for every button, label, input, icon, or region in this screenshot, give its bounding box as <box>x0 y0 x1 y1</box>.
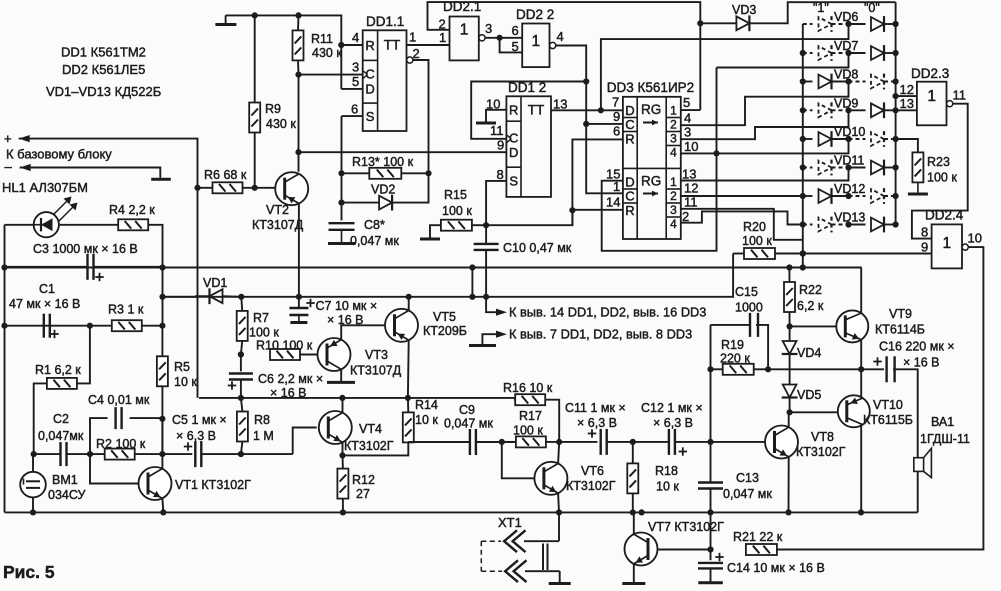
svg-text:VD9: VD9 <box>834 96 858 110</box>
svg-text:VT10: VT10 <box>873 398 903 412</box>
resistor R13* <box>369 168 401 179</box>
svg-text:КТ6115Б: КТ6115Б <box>863 413 913 427</box>
diode VD12 left (installed) <box>819 189 832 203</box>
svg-text:10: 10 <box>684 139 698 154</box>
wire C9 right <box>476 441 515 443</box>
svg-text:10 к: 10 к <box>174 375 197 389</box>
svg-text:С4 0,01 мк: С4 0,01 мк <box>88 393 150 407</box>
wire R14 top <box>407 398 409 413</box>
IC DD3 <box>623 97 681 239</box>
wire row VD11 mid right <box>849 167 866 169</box>
wire R18 top <box>632 442 634 464</box>
wire R8 bottom <box>241 442 243 455</box>
IC DD1.1 <box>363 30 407 131</box>
svg-text:С2: С2 <box>53 412 69 426</box>
wire row VD8 mid left <box>832 81 849 83</box>
wire C4 left <box>90 418 108 454</box>
svg-text:0,047 мк: 0,047 мк <box>723 487 772 501</box>
diode VD6 left (alt position) <box>819 17 832 31</box>
transistor VT2 <box>275 172 308 205</box>
svg-text:4: 4 <box>670 217 677 231</box>
wire C7 top <box>298 297 300 308</box>
svg-text:С12 1 мк ×: С12 1 мк × <box>641 401 703 415</box>
svg-text:DD2.4: DD2.4 <box>925 208 964 223</box>
wire DD2.3 pin12 <box>896 95 917 97</box>
svg-text:10: 10 <box>968 231 982 246</box>
wire rail A to rail B jumper <box>471 268 473 297</box>
wire row VD13 mid right <box>849 224 866 226</box>
svg-text:КТ3107Д: КТ3107Д <box>252 218 304 232</box>
wire DD2.3 pin13 (row VD9) <box>896 109 917 111</box>
svg-text:3: 3 <box>684 125 691 140</box>
wire C2 left node <box>34 453 61 455</box>
capacitor C14 <box>698 562 723 564</box>
wire R16 left <box>514 398 516 400</box>
svg-text:S: S <box>509 174 518 189</box>
wire R11 bottom to DD1.1 C <box>297 60 300 171</box>
wire +V rail A <box>5 267 862 269</box>
svg-text:8: 8 <box>921 225 928 240</box>
svg-text:С16 220 мк ×: С16 220 мк × <box>879 340 955 354</box>
svg-text:1: 1 <box>439 30 446 45</box>
svg-text:9: 9 <box>497 138 504 153</box>
wire DD3 pin5 out <box>681 109 701 111</box>
svg-text:× 16 В: × 16 В <box>270 386 307 400</box>
svg-text:430 к: 430 к <box>312 46 342 60</box>
svg-text:R7: R7 <box>253 311 269 325</box>
svg-text:C: C <box>625 189 634 204</box>
wire row VD7 right <box>884 52 896 54</box>
svg-text:0,047 мк: 0,047 мк <box>350 234 399 248</box>
wire to pins 7/8 <box>482 334 497 344</box>
svg-text:С8*: С8* <box>364 218 385 232</box>
wire VD5 bottom <box>789 398 791 413</box>
wire C3 left <box>5 266 88 268</box>
diode VD9 right (installed) <box>871 103 884 117</box>
svg-text:100 к: 100 к <box>927 171 957 185</box>
capacitor C13 <box>698 481 723 483</box>
svg-text:С5 1 мк ×: С5 1 мк × <box>172 413 227 427</box>
ground (C7) <box>298 315 300 323</box>
capacitor C8* <box>329 222 355 224</box>
wire VD2 right <box>392 173 428 202</box>
wire R5 top <box>161 326 163 357</box>
wire DD2.1 pin2 <box>434 29 450 31</box>
wire row VD7 input <box>717 53 849 68</box>
diode VD10 left (installed) <box>819 132 832 146</box>
svg-text:R13* 100 к: R13* 100 к <box>352 155 414 169</box>
capacitor C7 <box>289 307 308 309</box>
wire R22 top <box>788 268 790 283</box>
capacitor C1 <box>43 314 45 338</box>
wire R19 right <box>754 368 768 370</box>
svg-text:1: 1 <box>670 104 677 118</box>
diode VD4 <box>783 341 797 354</box>
svg-text:4: 4 <box>684 111 691 126</box>
wire VT8 base <box>711 441 766 443</box>
wire row VD6 left <box>803 23 813 25</box>
resistor R21 <box>746 544 777 555</box>
wire R8 top <box>241 398 243 412</box>
resistor R10 <box>270 349 300 360</box>
wire DD3 pin15 D path <box>602 68 717 251</box>
svg-text:С15: С15 <box>735 285 758 299</box>
svg-text:"1": "1" <box>813 1 829 15</box>
svg-text:100 к: 100 к <box>742 234 772 248</box>
wire VT8 collector to VT10 base <box>789 412 840 427</box>
svg-text:VD2: VD2 <box>371 183 395 197</box>
wire VT8 emitter <box>788 457 790 513</box>
svg-text:ХТ1: ХТ1 <box>498 515 522 530</box>
svg-text:R15: R15 <box>444 188 467 202</box>
svg-text:3: 3 <box>352 60 359 75</box>
resistor R3 <box>112 320 142 331</box>
wire VT6 base <box>502 442 535 478</box>
wire DD3 pin4 out (row VD8) <box>681 82 849 126</box>
svg-text:R8: R8 <box>254 413 270 427</box>
wire C5 to VT4 base <box>293 428 317 455</box>
clock tick DD1.1 C <box>363 71 368 75</box>
svg-text:VT9: VT9 <box>889 307 912 321</box>
capacitor C3 <box>86 254 88 280</box>
wire VT10 collector <box>860 425 862 513</box>
svg-text:1: 1 <box>613 179 620 194</box>
wire + line to base unit <box>19 139 198 398</box>
diode VD12 right (alt position) <box>871 189 884 203</box>
svg-text:6,2 к: 6,2 к <box>797 299 824 313</box>
capacitor C4 <box>114 407 116 429</box>
svg-text:R6 68 к: R6 68 к <box>204 168 247 182</box>
capacitor C16 <box>885 356 887 382</box>
resistor R8 <box>237 412 248 442</box>
svg-text:R19: R19 <box>721 338 744 352</box>
svg-text:430 к: 430 к <box>266 117 296 131</box>
wire C2 right node <box>67 453 105 455</box>
svg-text:С1: С1 <box>39 282 55 296</box>
svg-text:"0": "0" <box>864 1 880 15</box>
wire DD2.1 out to DD2.2 <box>485 37 522 39</box>
svg-text:10 к: 10 к <box>656 480 679 494</box>
svg-text:R18: R18 <box>655 464 678 478</box>
wire row VD12 mid right <box>849 195 866 197</box>
svg-text:5: 5 <box>512 39 519 54</box>
wire C5 right <box>201 453 292 455</box>
svg-text:11: 11 <box>953 88 967 103</box>
svg-text:R20: R20 <box>743 220 766 234</box>
svg-text:3: 3 <box>670 203 677 217</box>
svg-text:D: D <box>625 103 634 118</box>
svg-text:D: D <box>625 175 634 190</box>
ground (minus line) <box>159 176 161 179</box>
svg-text:VD1: VD1 <box>203 276 227 290</box>
transistor VT9 <box>836 310 868 342</box>
wire row VD12 left <box>803 195 813 197</box>
svg-text:3: 3 <box>485 21 492 36</box>
svg-text:1 М: 1 М <box>253 429 274 443</box>
IC DD1.2 <box>506 96 551 197</box>
transistor VT7 <box>625 533 658 566</box>
wire row VD10 right <box>884 138 896 140</box>
wire DD3 pin10 out (row VD10) <box>681 139 849 153</box>
wire C9 left <box>408 441 470 443</box>
svg-text:С11 1 мк ×: С11 1 мк × <box>565 401 626 415</box>
svg-text:VD3: VD3 <box>732 3 756 17</box>
wire row VD7 left <box>803 52 813 54</box>
wire VD4 to VD5 <box>789 354 791 385</box>
svg-text:D: D <box>509 145 518 160</box>
ground (pins 7/8 line) <box>481 343 483 346</box>
svg-text:9: 9 <box>921 240 928 255</box>
svg-text:VT2: VT2 <box>266 203 289 217</box>
wire R17 leads <box>502 441 516 443</box>
resistor R23 <box>912 152 923 182</box>
svg-text:5: 5 <box>683 95 690 110</box>
wire VD3 anode <box>700 22 736 24</box>
svg-text:4: 4 <box>352 30 359 45</box>
diode VD6 right (installed) <box>871 17 884 31</box>
wire row VD12 mid left <box>832 195 849 197</box>
svg-text:VT4: VT4 <box>359 422 382 436</box>
wire R9 bottom <box>254 133 256 188</box>
wire VD1 left <box>163 295 210 298</box>
wire BA1 bottom <box>917 471 919 512</box>
svg-text:S: S <box>366 109 375 124</box>
svg-text:VD1–VD13 КД522Б: VD1–VD13 КД522Б <box>46 84 161 99</box>
capacitor C2 <box>59 442 61 466</box>
svg-text:034СУ: 034СУ <box>48 488 85 502</box>
svg-text:VT7 КТ3102Г: VT7 КТ3102Г <box>648 520 724 534</box>
svg-text:R16 10 к: R16 10 к <box>503 381 553 395</box>
svg-text:КТ3102Г: КТ3102Г <box>566 479 616 493</box>
wire R23 top (row VD10) <box>896 139 918 152</box>
wire R12 top <box>342 455 344 468</box>
wire DD3 pin6 R <box>572 139 623 225</box>
clock tick DD1.2 C <box>506 135 511 139</box>
wire VT3 collector to VT5 base <box>341 325 387 339</box>
wire rail C <box>5 325 163 327</box>
svg-text:R: R <box>509 103 518 118</box>
svg-text:1: 1 <box>942 235 951 252</box>
svg-text:47 мк × 16 В: 47 мк × 16 В <box>9 297 80 311</box>
svg-text:6: 6 <box>613 124 620 139</box>
wire R19 left <box>711 368 723 370</box>
wire R19/C15 to VT9 collector line <box>768 368 884 370</box>
svg-text:С14 10 мк × 16 В: С14 10 мк × 16 В <box>727 561 825 575</box>
ground (VT3) <box>327 381 355 384</box>
wire DD3 pin3 out (row VD9) <box>681 110 849 139</box>
wire DD1.1 pin1 out <box>407 44 450 46</box>
svg-text:R14: R14 <box>415 398 438 412</box>
svg-text:8: 8 <box>497 167 504 182</box>
wire VT4 collector <box>342 398 344 413</box>
connector XT1 plug outline <box>480 541 482 571</box>
wire DD1.2 C path <box>471 82 586 139</box>
wire C6 bottom <box>240 380 242 398</box>
wire row VD9 mid right <box>849 109 866 111</box>
wire matrix 0-bus <box>895 2 897 225</box>
svg-text:ВМ1: ВМ1 <box>52 473 78 487</box>
svg-text:R5: R5 <box>174 360 190 374</box>
svg-text:9: 9 <box>613 109 620 124</box>
wire row VD6 mid left <box>832 23 849 25</box>
wire C10 vertical <box>485 225 487 244</box>
diode VD1 <box>210 289 223 303</box>
svg-text:VT8: VT8 <box>811 430 834 444</box>
wire C13 bottom <box>710 489 712 513</box>
wire R10 right / VT3 base <box>300 354 327 356</box>
wire R15 right <box>472 210 573 225</box>
node to pins 14/16 (supply) <box>496 309 507 316</box>
wire VT6 collector <box>558 442 559 464</box>
svg-text:R: R <box>625 203 634 218</box>
resistor R12 <box>337 469 348 499</box>
transistor VT8 <box>765 426 798 459</box>
wire R11 top <box>297 15 300 30</box>
resistor R19 <box>723 364 754 375</box>
wire DD3 pin12 out (row VD12) <box>681 195 803 197</box>
svg-text:13: 13 <box>553 97 567 112</box>
wire R5 bottom <box>161 386 163 454</box>
wire row VD10 mid left <box>832 138 849 140</box>
resistor R18 <box>627 463 638 493</box>
transistor VT6 <box>534 462 567 495</box>
wire row VD11 mid left <box>832 167 849 169</box>
svg-text:1: 1 <box>460 22 469 39</box>
wire DD1.2 pin8 S <box>486 181 506 225</box>
capacitor C12 <box>668 429 670 455</box>
inverting output DD2.4 pin10 <box>962 244 968 250</box>
svg-text:КТ3102Г: КТ3102Г <box>344 439 394 453</box>
wire VT3 emitter <box>340 369 342 382</box>
svg-text:ВА1: ВА1 <box>931 415 954 429</box>
transistor VT4 <box>319 411 352 444</box>
wire bottom rail E <box>5 511 918 513</box>
wire DD1.1 pin3 C line <box>299 74 363 76</box>
capacitor C10 <box>474 243 499 245</box>
svg-text:TT: TT <box>384 38 401 53</box>
svg-text:VT3: VT3 <box>365 348 388 362</box>
wire DD1.1 pin2 to R13/VD2 <box>413 60 429 173</box>
svg-text:7: 7 <box>612 95 619 110</box>
wire row VD10 left <box>803 138 813 140</box>
svg-text:–: – <box>5 159 13 174</box>
wire DD2.2 pin5 jog <box>500 38 523 53</box>
connector XT1 contact 1 <box>504 530 517 552</box>
wire top rail right (VD3 cathode to 0-bus) <box>749 2 895 23</box>
svg-text:100 к: 100 к <box>442 204 472 218</box>
wire BM1 bottom <box>32 497 34 512</box>
svg-text:VT6: VT6 <box>581 464 604 478</box>
svg-text:13: 13 <box>682 167 696 182</box>
svg-text:С7 10 мк ×: С7 10 мк × <box>316 299 378 313</box>
resistor R1 <box>47 378 77 389</box>
svg-text:4: 4 <box>670 146 677 160</box>
wire R6 right / VT2 base <box>243 187 286 189</box>
wire row VD9 left <box>803 109 813 111</box>
wire DD3 pin14 R <box>572 209 623 211</box>
wire R20 left <box>733 253 744 255</box>
wire row VD9 right <box>884 109 896 111</box>
diode VD2 <box>379 196 392 210</box>
diode VD10 right (alt position) <box>871 132 884 146</box>
svg-text:DD1 2: DD1 2 <box>508 80 546 95</box>
svg-text:RG: RG <box>641 102 661 117</box>
diode VD11 right (installed) <box>871 161 884 175</box>
wire C15 right <box>756 325 768 369</box>
svg-text:С10 0,47 мк: С10 0,47 мк <box>503 241 572 255</box>
wire VT7 base <box>658 549 710 551</box>
svg-text:100 к: 100 к <box>513 424 543 438</box>
svg-text:0,047 мк: 0,047 мк <box>444 417 493 431</box>
wire to pins 14/16 <box>486 297 497 312</box>
svg-text:DD2 К561ЛЕ5: DD2 К561ЛЕ5 <box>62 62 145 77</box>
svg-text:Рис. 5: Рис. 5 <box>3 562 55 582</box>
diode VD8 left (installed) <box>819 75 832 89</box>
resistor R6 <box>213 182 243 193</box>
svg-text:VT5: VT5 <box>433 310 456 324</box>
svg-text:DD1 К561ТМ2: DD1 К561ТМ2 <box>61 45 146 60</box>
inverting output DD2.3 pin11 <box>947 101 953 107</box>
transistor VT10 <box>838 395 870 427</box>
transistor VT1 <box>139 467 172 500</box>
svg-text:× 6,3 В: × 6,3 В <box>176 429 216 443</box>
svg-text:4: 4 <box>557 29 564 44</box>
wire VT2 emitter <box>298 204 300 297</box>
svg-text:VT1 КТ3102Г: VT1 КТ3102Г <box>175 478 251 492</box>
wire row VD11 left <box>803 167 813 169</box>
svg-text:HL1 АЛ307БМ: HL1 АЛ307БМ <box>2 180 88 195</box>
svg-text:11: 11 <box>490 123 504 138</box>
wire R7 bottom <box>241 341 242 372</box>
ground (XT1) <box>559 581 561 584</box>
wire DD1.2 pin9 D line <box>299 151 507 153</box>
svg-text:C: C <box>625 117 634 132</box>
capacitor C5 <box>194 441 196 467</box>
wire VT9 collector (rail A) <box>860 268 862 314</box>
wire R1 right (up to rail C) <box>77 326 90 384</box>
wire VT4 emitter to R14 <box>343 441 409 456</box>
wire DD1.2 pin10 R <box>486 110 506 122</box>
wire C15/R19/C12 vertical <box>710 325 712 483</box>
svg-text:27: 27 <box>356 487 370 501</box>
svg-text:КТ209Б: КТ209Б <box>423 324 467 338</box>
wire row VD7 mid right <box>849 52 866 54</box>
wire row VD11 right <box>884 167 896 169</box>
ground (top rail) <box>225 15 227 24</box>
wire DD1.2 pin13 out <box>551 109 623 111</box>
svg-text:R22: R22 <box>799 283 822 297</box>
resistor R7 <box>237 311 248 341</box>
svg-text:R4 2,2 к: R4 2,2 к <box>109 203 155 217</box>
wire rail D <box>199 397 515 399</box>
wire R7 top <box>240 297 243 311</box>
wire VT4 emitter <box>342 442 344 455</box>
capacitor C6 <box>229 372 253 374</box>
svg-text:1ГДШ-11: 1ГДШ-11 <box>920 432 970 446</box>
wire S-node vertical <box>341 116 343 220</box>
diode VD8 right (alt position) <box>871 75 884 89</box>
ground (R15) <box>429 236 431 239</box>
wire row VD13 left <box>803 224 813 226</box>
wire row VD6 mid right <box>849 23 866 25</box>
svg-text:КТ3102Г: КТ3102Г <box>796 445 846 459</box>
resistor R20 <box>744 248 775 259</box>
wire VT7 collector <box>633 512 635 534</box>
wire row VD10 mid right <box>849 138 866 140</box>
wire DD2.3 out to DD2.4 <box>912 104 968 239</box>
resistor R11 <box>293 30 304 60</box>
wire VT5 collector <box>407 340 410 398</box>
